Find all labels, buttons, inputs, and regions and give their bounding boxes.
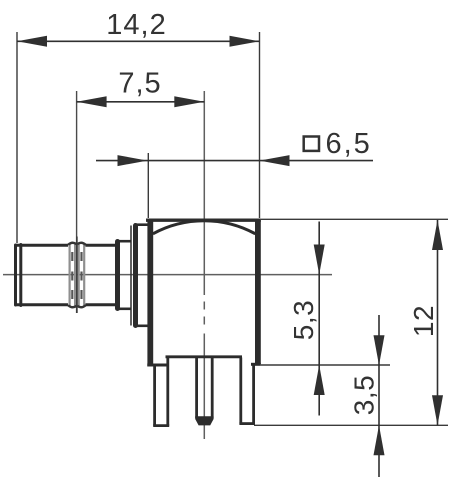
extension line right (14,2 / 6,5): [259, 32, 261, 218]
right leg: [239, 358, 255, 424]
svg-text:12: 12: [408, 305, 439, 337]
barrel front face inner line: [19, 245, 22, 306]
extension line mid right (5,3 / 3,5): [261, 364, 390, 366]
flange top edge: [134, 223, 149, 226]
extension line left (14,2): [16, 32, 18, 243]
svg-text:14,2: 14,2: [106, 9, 166, 41]
groove ring band: [68, 237, 86, 314]
extension line bottom right (12 / 3,5): [254, 424, 448, 426]
collar bottom edge: [118, 307, 132, 310]
barrel bottom edge front section: [15, 303, 68, 306]
dome arc: [153, 221, 255, 234]
collar top edge: [118, 240, 132, 243]
body bottom left face: [147, 364, 166, 367]
barrel top edge rear section: [86, 244, 117, 247]
label square 6,5: [304, 137, 319, 151]
body right wall: [255, 220, 261, 365]
body top edge: [146, 218, 261, 221]
barrel top edge front section: [15, 244, 68, 247]
svg-text:7,5: 7,5: [118, 68, 161, 100]
collar step edge: [115, 242, 120, 309]
flange front edge: [133, 226, 138, 326]
body bottom right face: [251, 363, 261, 366]
centerline horizontal axis: [3, 274, 332, 276]
left leg: [153, 358, 169, 426]
dimension line 3,5: [378, 315, 380, 477]
flange bottom edge: [134, 324, 149, 327]
dimension line 5,3: [318, 222, 320, 416]
extension line top right (12): [261, 218, 448, 220]
body left wall: [147, 220, 153, 367]
flange chamfer line: [130, 226, 132, 326]
barrel front face outer line: [14, 245, 17, 305]
svg-text:5,3: 5,3: [288, 300, 319, 340]
dimension line 12: [437, 220, 439, 425]
dimension line 7,5: [77, 101, 205, 103]
insulator recess face: [166, 355, 243, 358]
barrel bottom edge rear section: [86, 303, 117, 306]
svg-text:3,5: 3,5: [349, 375, 380, 415]
dimension line 14,2: [17, 40, 260, 42]
groove axis line: [76, 91, 78, 313]
center pin: [197, 357, 213, 418]
leader line 6,5: [96, 160, 373, 162]
extension line left (6,5): [147, 153, 149, 218]
svg-text:6,5: 6,5: [326, 128, 372, 160]
centerline vertical axis: [203, 91, 205, 439]
center pin tip: [195, 416, 213, 425]
